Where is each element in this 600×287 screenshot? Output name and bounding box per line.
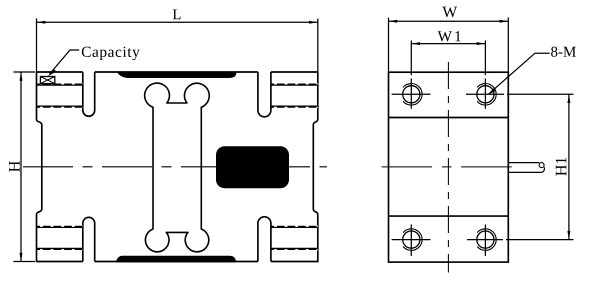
8-M leader line [489, 53, 550, 94]
dimension H1 line [568, 94, 570, 239]
dimension L line [37, 21, 318, 23]
dimension H extension line bottom [14, 261, 36, 263]
right view vertical centerline [447, 62, 449, 273]
dimension L extension line left [36, 19, 38, 72]
dimension W text [442, 7, 457, 18]
hole top-left inner circle [403, 86, 420, 103]
hole top-right crosshair [466, 79, 504, 109]
dimension H1 text [556, 158, 567, 176]
hole top-left thread arc [403, 83, 422, 105]
bottom-right thread hole lines [271, 226, 318, 250]
dimension L right arrow [309, 21, 318, 24]
dimension W line [389, 20, 509, 22]
left view body top edge segment 2 [95, 71, 258, 73]
bottom-left thread hole lines [37, 226, 83, 250]
left view body bottom edge segment 1 [37, 261, 83, 263]
hole bottom-right crosshair [467, 225, 503, 257]
dimension H1 extension line top [507, 93, 574, 95]
bottom-right slot [258, 217, 271, 262]
dimension L left arrow [37, 21, 46, 24]
dimension W left arrow [389, 20, 398, 23]
dimension H1 top arrow [567, 95, 570, 104]
dimension H1 bottom arrow [567, 231, 570, 240]
dimension W1 extension lines (hole centerlines up) [411, 41, 485, 76]
dimension H top arrow [20, 72, 23, 81]
left view horizontal centerline [23, 166, 327, 168]
capacity leader line [50, 50, 80, 74]
black seal band bottom [116, 256, 236, 263]
8-M leader arrow [487, 88, 496, 95]
top-right thread hole lines [271, 84, 318, 108]
hole bottom-left thread arc [403, 229, 422, 251]
top-right slot [258, 72, 271, 117]
left view body top edge segment 1 [37, 71, 83, 73]
dimension H line [20, 72, 22, 262]
hole top-left crosshair [392, 79, 431, 109]
cable gland [509, 163, 545, 173]
dimension W extension lines [389, 18, 509, 72]
dimension W1 left arrow [412, 42, 421, 45]
left view body top edge segment 3 [271, 71, 318, 73]
left view body right edge with jogs [313, 71, 318, 262]
hole bottom-left inner circle [403, 231, 420, 248]
dimension W right arrow [500, 20, 509, 23]
capacity leader arrow [48, 69, 57, 76]
dimension L text [173, 10, 181, 20]
dimension W1 line [411, 43, 485, 45]
right view lower plate line [389, 215, 509, 217]
right view horizontal centerline [382, 166, 516, 168]
left view body bottom edge segment 3 [271, 261, 318, 263]
dimension H bottom arrow [20, 253, 23, 262]
capacity label plate box with X [40, 77, 54, 84]
dimension H extension line top [14, 71, 36, 73]
top-left slot [83, 72, 95, 116]
hole bottom-left crosshair [392, 225, 431, 257]
left view body bottom edge segment 2 [95, 261, 258, 263]
capacity leader text [82, 47, 140, 60]
right view upper plate line [389, 117, 509, 119]
black seal band top [117, 72, 237, 79]
dimension W1 right arrow [477, 42, 486, 45]
hole top-right thread arc [477, 83, 496, 105]
dimension L extension line right [317, 19, 319, 72]
top-left thread hole lines [37, 84, 83, 108]
flexure binocular cutout (four lobes, bridges and slot lines) [145, 83, 210, 252]
right view body rectangle [389, 72, 509, 262]
left view body left edge with jogs [37, 71, 42, 262]
dimension H text [9, 161, 19, 172]
black potting cover rounded rectangle [216, 146, 289, 188]
hole top-right inner circle [477, 86, 494, 103]
hole bottom-right thread arc [477, 229, 496, 251]
dimension H1 extension line bottom [506, 239, 574, 241]
8-M label text [551, 47, 576, 57]
hole bottom-right inner circle [477, 231, 494, 248]
dimension W1 text [438, 31, 461, 41]
bottom-left slot [83, 217, 95, 261]
